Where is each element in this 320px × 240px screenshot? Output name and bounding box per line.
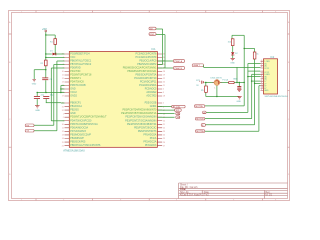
svg-text:GND: GND <box>32 84 37 86</box>
svg-text:2: 2 <box>261 62 262 64</box>
svg-text:1: 1 <box>261 60 262 62</box>
svg-text:6: 6 <box>261 82 262 84</box>
svg-text:10: 10 <box>62 124 64 126</box>
svg-text:PF1/A: PF1/A <box>150 137 157 140</box>
svg-text:IC1: IC1 <box>152 47 157 51</box>
svg-text:25: 25 <box>163 138 165 140</box>
svg-text:PB1/OC1A: PB1/OC1A <box>70 105 82 108</box>
svg-text:21: 21 <box>163 85 165 87</box>
svg-text:PB4/MISO/P: PB4/MISO/P <box>70 137 84 140</box>
svg-text:10k: 10k <box>228 42 231 44</box>
svg-text:PB2/SS: PB2/SS <box>70 109 79 112</box>
svg-text:GND: GND <box>264 90 269 92</box>
svg-text:19: 19 <box>163 75 165 77</box>
svg-text:KiCad E.D.A. kicad 4.0.7-e2: KiCad E.D.A. kicad 4.0.7-e2 <box>180 193 209 196</box>
svg-text:18: 18 <box>163 96 165 98</box>
svg-text:PE5/PCINT29/OC3C: PE5/PCINT29/OC3C <box>134 126 157 129</box>
svg-text:8: 8 <box>261 75 262 77</box>
svg-text:PE1/PCINT25/TXD0/AIN1/INT1A: PE1/PCINT25/TXD0/AIN1/INT1A <box>121 112 157 115</box>
svg-text:7: 7 <box>261 64 262 66</box>
svg-text:20: 20 <box>163 120 165 122</box>
svg-text:Id: 1/1: Id: 1/1 <box>266 194 273 196</box>
svg-text:14: 14 <box>62 138 64 140</box>
svg-text:13: 13 <box>62 82 64 84</box>
svg-text:10: 10 <box>62 71 64 73</box>
svg-text:31: 31 <box>62 106 64 108</box>
svg-text:MOT2A: MOT2A <box>196 130 204 133</box>
svg-text:PD7/AIN1/P23: PD7/AIN1/P23 <box>70 130 86 133</box>
svg-text:21: 21 <box>163 124 165 126</box>
svg-text:17: 17 <box>62 96 64 98</box>
svg-text:VCC1: VCC1 <box>264 68 269 70</box>
svg-text:PB3/MOSI/OC2A/P: PB3/MOSI/OC2A/P <box>70 133 91 136</box>
svg-text:GND: GND <box>230 62 235 64</box>
svg-text:PD6/AIN0/OC0A: PD6/AIN0/OC0A <box>70 126 88 129</box>
svg-text:15: 15 <box>62 142 64 144</box>
svg-text:PE0/PCINT24/RXD0/AIN0/INT0: PE0/PCINT24/RXD0/AIN0/INT0 <box>123 109 158 112</box>
svg-text:2: 2 <box>63 117 64 119</box>
svg-text:16: 16 <box>261 78 263 80</box>
svg-text:PD3/INT1/OC2B/PCINT19/AIN1/T: PD3/INT1/OC2B/PCINT19/AIN1/T <box>70 116 107 119</box>
svg-text:15: 15 <box>261 73 263 75</box>
svg-text:PB0/ICP1: PB0/ICP1 <box>70 102 81 105</box>
svg-text:1: 1 <box>214 87 215 89</box>
svg-text:24: 24 <box>163 135 165 137</box>
svg-text:PF2/ADC2A: PF2/ADC2A <box>143 141 156 144</box>
svg-text:PD5/T1/OC0B/PCINT21A: PD5/T1/OC0B/PCINT21A <box>70 123 98 126</box>
svg-text:GND: GND <box>237 101 242 103</box>
svg-text:PE2/PCINT26/XCK0/AIN2/IN: PE2/PCINT26/XCK0/AIN2/IN <box>125 116 156 119</box>
svg-text:SN754410NE-SN754410: SN754410NE-SN754410 <box>265 96 289 98</box>
svg-text:GND4: GND4 <box>150 105 157 108</box>
svg-text:28: 28 <box>163 71 165 73</box>
svg-text:PE3/PCINT27/OC3A/AIN3/IN: PE3/PCINT27/OC3A/AIN3/IN <box>125 119 156 122</box>
svg-text:22: 22 <box>163 78 165 80</box>
svg-text:5: 5 <box>163 89 164 91</box>
svg-text:Title:: Title: <box>180 187 186 191</box>
svg-text:20: 20 <box>163 82 165 84</box>
svg-text:F1 1A: F1 1A <box>223 78 229 81</box>
svg-text:12: 12 <box>62 78 64 80</box>
svg-text:ATMEGA168-20AU: ATMEGA168-20AU <box>63 150 85 153</box>
svg-text:GND: GND <box>150 34 155 36</box>
svg-text:PF3/ADC3: PF3/ADC3 <box>145 144 157 147</box>
svg-text:PWM_A: PWM_A <box>174 60 182 63</box>
svg-text:11: 11 <box>261 84 263 86</box>
svg-text:24: 24 <box>163 57 165 59</box>
svg-text:PB5/SCK/P05: PB5/SCK/P05 <box>70 141 86 144</box>
svg-text:IC2: IC2 <box>271 56 275 59</box>
svg-text:MOT1A: MOT1A <box>195 105 203 108</box>
svg-text:PF0/ADC0A: PF0/ADC0A <box>143 133 156 136</box>
svg-text:2: 2 <box>163 103 164 105</box>
svg-text:PWM_B: PWM_B <box>174 68 182 70</box>
svg-text:4: 4 <box>261 89 262 91</box>
svg-text:GND: GND <box>70 112 76 115</box>
svg-text:ADC7/E3: ADC7/E3 <box>146 95 157 98</box>
svg-text:27: 27 <box>163 145 165 147</box>
svg-text:VBATT: VBATT <box>193 64 200 67</box>
svg-text:23: 23 <box>163 54 165 56</box>
svg-text:1: 1 <box>63 113 64 115</box>
svg-text:11: 11 <box>62 75 64 77</box>
svg-text:GND: GND <box>35 110 40 112</box>
svg-text:PD5/OC0B: PD5/OC0B <box>145 102 157 105</box>
svg-text:1k: 1k <box>256 54 258 56</box>
svg-text:PE6/PCINT30/T3: PE6/PCINT30/T3 <box>138 130 157 133</box>
svg-text:MOT1B: MOT1B <box>196 119 204 121</box>
svg-text:3: 3 <box>261 80 262 82</box>
svg-text:GND2: GND2 <box>70 95 77 98</box>
svg-text:12: 12 <box>62 131 64 133</box>
svg-text:DS01 2M 5V: DS01 2M 5V <box>211 77 223 79</box>
svg-text:GND: GND <box>233 78 238 80</box>
svg-text:9: 9 <box>261 67 262 69</box>
svg-text:PD4/T0/XCK/PCI20: PD4/T0/XCK/PCI20 <box>70 119 92 122</box>
svg-text:PE4/PCINT28/OC3B/INT44: PE4/PCINT28/OC3B/INT44 <box>127 123 157 126</box>
svg-text:21: 21 <box>62 145 64 147</box>
svg-text:23: 23 <box>163 131 165 133</box>
svg-text:26: 26 <box>163 64 165 66</box>
svg-text:13: 13 <box>62 135 64 137</box>
svg-text:14: 14 <box>261 87 263 89</box>
svg-text:11: 11 <box>62 128 64 130</box>
svg-text:PB6/XTAL1/TOSC1/PCINT6: PB6/XTAL1/TOSC1/PCINT6 <box>70 144 101 147</box>
svg-text:3: 3 <box>163 92 164 94</box>
svg-text:32: 32 <box>62 110 64 112</box>
svg-text:26: 26 <box>163 142 165 144</box>
svg-text:10: 10 <box>261 71 263 73</box>
svg-text:BT_LVL: BT_LVL <box>173 107 181 109</box>
svg-text:22: 22 <box>163 128 165 130</box>
